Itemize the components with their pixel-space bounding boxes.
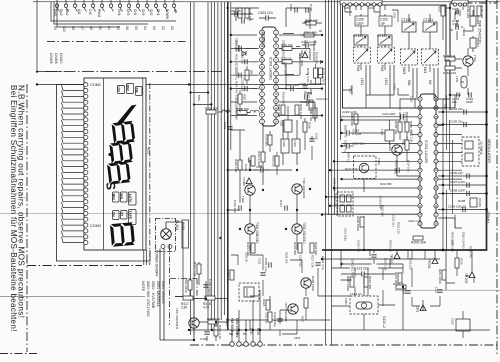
- svg-text:7L141: 7L141: [462, 28, 466, 37]
- svg-text:R302 4.7K: R302 4.7K: [322, 68, 326, 82]
- svg-text:STEREO: STEREO: [262, 32, 266, 48]
- capacitor C409: [200, 332, 210, 341]
- svg-text:R413 3.3K: R413 3.3K: [193, 262, 197, 276]
- svg-text:CH: CH: [112, 212, 116, 217]
- wire stub y209: [438, 209, 486, 211]
- node tuner block outline: [343, 5, 447, 108]
- wire glass inner right edge: [142, 78, 144, 250]
- capacitor C309: [235, 38, 242, 52]
- transformer T305 box: [280, 120, 293, 132]
- capacitor C206: [450, 171, 469, 179]
- svg-text:C301 22n: C301 22n: [230, 9, 242, 13]
- switch S6: [91, 0, 95, 12]
- resistor R413: [193, 262, 201, 276]
- switch CH2: [145, 0, 149, 12]
- svg-text:CH6: CH6: [117, 9, 121, 16]
- svg-text:S9: S9: [53, 26, 57, 30]
- wire bus a8: [224, 2, 226, 315]
- resistor R306: [245, 8, 252, 21]
- node lamp terminals: [161, 245, 165, 249]
- svg-text:3.3K: 3.3K: [181, 306, 188, 310]
- switch S1: [172, 0, 176, 12]
- resistor R158: [477, 5, 484, 18]
- svg-text:S6: S6: [125, 26, 129, 30]
- wire matrix bracket 3: [57, 2, 120, 27]
- node decimal point: [108, 153, 111, 156]
- transistor T302: [241, 185, 255, 203]
- switch S3: [118, 0, 122, 12]
- wire long y250 links: [322, 250, 440, 268]
- resistor R311b: [281, 43, 293, 50]
- svg-text:NOTE: NOTE: [141, 281, 145, 292]
- wire bus cross links: [191, 93, 212, 105]
- resistor R206: [394, 121, 402, 134]
- node bottom border corner: [0, 353, 38, 355]
- resistor R207: [405, 121, 413, 135]
- wire fold line mid: [0, 212, 500, 214]
- node power section dash border: [170, 245, 198, 325]
- node top ic U201: [340, 0, 382, 6]
- svg-text:CN410: CN410: [59, 53, 63, 64]
- wire ic301 left pins to bus: [231, 35, 257, 115]
- wire audio out left: [146, 85, 322, 131]
- node top-left dash border: [47, 41, 186, 43]
- capacitor tuning gang LW: [422, 49, 439, 65]
- node lower mid wires: [231, 245, 330, 336]
- node mid-left dash border: [45, 71, 222, 73]
- svg-text:CH3: CH3: [141, 9, 145, 16]
- wire heavy B+ rail: [322, 0, 487, 250]
- node note text: [141, 281, 165, 317]
- capacitor C324: [260, 273, 265, 275]
- svg-text:S5: S5: [134, 26, 138, 30]
- svg-text:C222 4.7µ: C222 4.7µ: [408, 219, 421, 223]
- op-amp IC201 body: [420, 94, 436, 228]
- node modulator dash box: [462, 137, 479, 166]
- capacitor C303: [259, 15, 276, 20]
- resistor R421: [214, 325, 222, 339]
- svg-text:TAPE: TAPE: [128, 211, 132, 219]
- node CN406 CN408 CN410: [49, 53, 63, 64]
- capacitor C302b: [242, 17, 254, 24]
- node tuner internal wires: [343, 5, 431, 95]
- node IC201 pins left: [418, 97, 422, 226]
- svg-text:S4: S4: [143, 26, 147, 30]
- node unit flag boxes MHz kHz AUTO: [113, 192, 137, 225]
- svg-text:POWER ON/OFF: POWER ON/OFF: [155, 250, 159, 277]
- filter CF203: [470, 38, 480, 48]
- node unit flag texts: [112, 194, 132, 220]
- svg-text:0001~500 :2SC1740S: 0001~500 :2SC1740S: [146, 281, 150, 317]
- wire bottom-left risers: [175, 262, 228, 341]
- svg-text:T202: T202: [388, 144, 392, 151]
- resistor R202b: [402, 139, 410, 150]
- resistor R319b: [265, 134, 273, 146]
- node IC201 pins right: [434, 97, 438, 226]
- wire bottom risers: [232, 290, 260, 342]
- svg-text:TP201: TP201: [427, 259, 431, 269]
- svg-text:120P: 120P: [356, 22, 363, 26]
- resistor R324: [262, 299, 270, 310]
- svg-text:0501~ :KV1780B: 0501~ :KV1780B: [151, 281, 155, 309]
- wire matrix bracket 1: [51, 2, 176, 21]
- wire sif links: [342, 112, 421, 250]
- svg-text:L151: L151: [360, 78, 364, 85]
- node wire value labels: [235, 40, 473, 277]
- node coil labels: [360, 78, 432, 86]
- wire right of ic201: [438, 99, 462, 250]
- test point TP300: [242, 177, 252, 186]
- capacitor C319: [315, 256, 325, 270]
- node right border: [496, 0, 498, 356]
- svg-text:N.B.When carrying out repairs,: N.B.When carrying out repairs, observe M…: [16, 85, 25, 318]
- capacitor C213: [341, 271, 395, 276]
- node connector labels: [228, 328, 260, 336]
- node volt note: [225, 318, 239, 338]
- svg-text:S7: S7: [80, 26, 84, 30]
- capacitor C318: [273, 312, 283, 327]
- svg-text:R356 150K: R356 150K: [311, 276, 315, 291]
- svg-text:114.6 Hz: 114.6 Hz: [350, 292, 362, 296]
- resistor R316: [295, 104, 303, 119]
- wire mid vertical links: [283, 48, 315, 165]
- svg-text:S1: S1: [170, 26, 174, 30]
- wire cn feed: [37, 0, 62, 72]
- resistor R320: [272, 155, 280, 167]
- capacitor C312: [235, 64, 242, 78]
- capacitor C311: [241, 52, 248, 64]
- wire matrix bracket 2: [54, 2, 148, 24]
- capacitor C212: [435, 287, 443, 294]
- wire ct154 links: [361, 5, 430, 49]
- transistor T301: [292, 178, 306, 199]
- svg-text:TP300: TP300: [242, 177, 246, 186]
- svg-text:E: E: [242, 333, 246, 335]
- switch S7: [82, 0, 86, 12]
- svg-text:CH1: CH1: [156, 9, 160, 16]
- node lower mid labels: [245, 252, 305, 340]
- svg-text:CN408: CN408: [54, 53, 58, 64]
- capacitor C301: [230, 9, 242, 17]
- resistor R315: [277, 104, 285, 117]
- switch S2: [163, 0, 167, 12]
- wire bus a7: [220, 2, 222, 320]
- transistor T202: [388, 144, 402, 155]
- resistor R307: [234, 8, 242, 21]
- svg-text:R216 30K: R216 30K: [368, 276, 372, 289]
- svg-text:CF226: CF226: [478, 198, 482, 207]
- resistor R213b: [455, 258, 464, 268]
- resistor R217: [393, 282, 406, 289]
- resistor R309: [305, 99, 313, 110]
- wire fold line lower-left: [0, 296, 145, 298]
- wire stub y185: [438, 184, 486, 186]
- node connector pads: [230, 342, 263, 347]
- capacitor C314b: [286, 83, 300, 91]
- svg-text:E: E: [228, 333, 232, 335]
- wire mid auxiliary: [231, 14, 326, 175]
- capacitor C313: [244, 157, 251, 171]
- transistor T151: [463, 55, 477, 66]
- svg-text:AUTO: AUTO: [128, 194, 132, 203]
- junction bus dots: [189, 91, 212, 105]
- svg-text:0561 :1S4423: 0561 :1S4423: [161, 281, 165, 303]
- wire tuner right rail: [449, 3, 451, 110]
- resistor R323: [310, 242, 318, 255]
- svg-text:R309 1.5K: R309 1.5K: [309, 107, 313, 121]
- resistor R313b: [281, 56, 292, 63]
- resistor R304: [305, 19, 318, 26]
- resistor R419: [184, 279, 192, 293]
- resistor R301: [304, 31, 317, 38]
- resistor R214: [394, 272, 402, 284]
- node band flag boxes FM MW LW: [118, 84, 143, 96]
- svg-text:C206 22n: C206 22n: [450, 171, 463, 175]
- svg-text:R217: R217: [393, 282, 401, 286]
- svg-text:F201: F201: [344, 298, 348, 305]
- switch S5: [100, 0, 104, 12]
- resistor R313: [251, 156, 255, 166]
- resistor R160: [443, 54, 456, 61]
- switch S9: [55, 0, 59, 12]
- capacitor C317: [279, 200, 287, 211]
- svg-text:R421 2.7K: R421 2.7K: [218, 325, 222, 339]
- svg-text:C320 4.7µ: C320 4.7µ: [264, 258, 268, 272]
- node discriminator dash box: [354, 156, 382, 179]
- wire bus a10: [230, 2, 232, 150]
- svg-text:CT154: CT154: [353, 34, 363, 38]
- node switch labels: [53, 26, 174, 32]
- svg-text:C317: C317: [279, 200, 283, 208]
- test point TP201: [427, 258, 438, 269]
- svg-text:R211 100K: R211 100K: [438, 269, 442, 284]
- resistor R328: [268, 312, 272, 322]
- wire ic201 top pins: [400, 99, 418, 135]
- node top ic U202: [452, 0, 468, 6]
- capacitor C158: [452, 7, 459, 15]
- svg-text:S11C-2: S11C-2: [382, 316, 386, 328]
- svg-text:+B: +B: [235, 331, 239, 335]
- capacitor C306: [289, 4, 297, 13]
- svg-text:LW: LW: [117, 87, 121, 93]
- svg-text:A11: A11: [77, 9, 81, 15]
- svg-text:R206 10K: R206 10K: [394, 121, 398, 134]
- resistor R311: [257, 151, 265, 165]
- capacitor CT151 trimmer: [423, 18, 437, 32]
- node display bottom dash border: [27, 265, 142, 267]
- svg-text:CH5: CH5: [126, 9, 130, 16]
- svg-text:F302: F302: [293, 141, 297, 148]
- svg-text:T302: T302: [241, 196, 245, 203]
- node left border: [26, 84, 28, 352]
- svg-text:S: S: [104, 181, 119, 191]
- wire glass divider: [103, 78, 105, 250]
- transistor T303: [292, 222, 306, 244]
- resistor R216: [364, 276, 372, 289]
- resistor R310: [234, 159, 242, 172]
- svg-text:IC301 LA3361: IC301 LA3361: [269, 57, 273, 80]
- wire ic201 stubs2: [341, 95, 456, 228]
- svg-text:S5: S5: [98, 26, 102, 30]
- wire ic201 left pins to busB: [322, 144, 418, 215]
- svg-text:C323: C323: [294, 336, 301, 340]
- svg-text:10.7MHz: 10.7MHz: [479, 141, 483, 155]
- node ic201 upper stub labels: [394, 96, 448, 175]
- svg-text:C152: C152: [368, 6, 375, 10]
- svg-text:C408 10µ16: C408 10µ16: [208, 279, 212, 296]
- svg-text:CT254 68P: CT254 68P: [333, 193, 337, 207]
- svg-text:MODULATOR: MODULATOR: [487, 139, 491, 163]
- svg-text:R322 56K: R322 56K: [293, 242, 297, 255]
- resistor R159: [466, 5, 474, 18]
- svg-text:PL301: PL301: [175, 220, 179, 230]
- wire stub y176: [438, 175, 486, 177]
- capacitor C207: [450, 180, 469, 188]
- node digit 8 third: [107, 161, 131, 184]
- svg-text:COM1: COM1: [90, 83, 101, 87]
- transistor T306: [284, 302, 298, 322]
- node lamp connector PL301: [181, 220, 188, 248]
- svg-text:220P: 220P: [466, 100, 473, 104]
- capacitor C162: [466, 92, 474, 104]
- svg-text:T304 2SB1010: T304 2SB1010: [255, 222, 259, 243]
- wire left risers under ic301: [240, 124, 263, 203]
- svg-text:R158 330: R158 330: [480, 5, 484, 18]
- wire bus b2: [328, 0, 330, 215]
- capacitor C150 label box: [355, 16, 368, 26]
- resistor R308 with coil: [205, 107, 230, 115]
- wire bus b6: [340, 0, 342, 140]
- capacitor C209: [448, 205, 466, 213]
- svg-text:C409: C409: [200, 337, 208, 341]
- wire bus b4: [334, 0, 336, 215]
- capacitor C218: [347, 129, 362, 137]
- resistor R417: [181, 296, 193, 310]
- resistor R329: [304, 298, 308, 308]
- wire bus b5: [337, 0, 339, 215]
- wire ic201 right short stubs: [438, 99, 462, 218]
- svg-text:455kHz: 455kHz: [486, 211, 490, 223]
- resistor R211: [438, 269, 446, 284]
- capacitor C153 label box: [379, 16, 392, 26]
- capacitor C228 box: [451, 311, 471, 338]
- filter F300: [281, 139, 289, 153]
- resistor R215: [346, 276, 354, 291]
- wire tp drops: [397, 250, 472, 290]
- filter CF226: [458, 198, 482, 207]
- node display glass: [84, 78, 146, 250]
- capacitor C315b: [309, 133, 318, 141]
- wire det horizontals: [332, 250, 475, 306]
- svg-text:R220 100K: R220 100K: [356, 216, 360, 231]
- capacitor CT150 trimmer: [401, 18, 416, 32]
- switch CH3: [136, 0, 140, 12]
- wire bus b1: [325, 0, 327, 345]
- svg-text:4L01: 4L01: [147, 147, 151, 155]
- wire fold line lower-right: [395, 289, 500, 291]
- node IC201 pin numbers: [419, 97, 438, 226]
- resistor R157: [438, 6, 446, 16]
- svg-text:CT150: CT150: [401, 18, 411, 22]
- wire ic301 right pins out: [279, 35, 322, 115]
- svg-text:C408 10µ: C408 10µ: [226, 269, 230, 282]
- capacitor C320: [264, 258, 271, 272]
- svg-text:5P: 5P: [381, 22, 385, 26]
- resistor R309b: [309, 107, 317, 121]
- lamp PL301: [161, 229, 172, 240]
- switch S4: [109, 0, 113, 12]
- switch S8: [73, 0, 77, 12]
- wire right pair vertical: [443, 6, 460, 214]
- resistor R420: [207, 317, 220, 324]
- capacitor C307: [300, 94, 314, 104]
- svg-text:T303 2SD1010: T303 2SD1010: [302, 222, 306, 244]
- svg-text:LW1: LW1: [423, 67, 427, 74]
- node digit 8 second: [109, 141, 133, 164]
- svg-text:R208: R208: [458, 199, 466, 203]
- svg-text:R303 4.7K: R303 4.7K: [306, 68, 310, 82]
- svg-text:IC201 LA1265: IC201 LA1265: [424, 140, 428, 163]
- wire lamp area: [160, 250, 194, 340]
- resistor R308b with coil: [236, 107, 259, 115]
- switch S10: [64, 0, 68, 12]
- capacitor C304: [301, 40, 317, 48]
- svg-text:R316 1µ50: R316 1µ50: [299, 104, 303, 119]
- svg-text:S6: S6: [89, 26, 93, 30]
- capacitor CT152 trimmer: [377, 34, 392, 45]
- switch CH1: [154, 0, 158, 12]
- resistor R307b: [238, 94, 247, 104]
- svg-text:DOWN: DOWN: [165, 9, 169, 20]
- transistor T304: [245, 222, 259, 243]
- svg-text:C209 100µ25: C209 100µ25: [448, 205, 466, 209]
- resistor R220: [356, 216, 364, 231]
- capacitor C305: [299, 82, 312, 88]
- wire bottom long: [189, 320, 490, 330]
- node gang labels: [356, 65, 427, 75]
- svg-text:L152: L152: [384, 78, 388, 85]
- capacitor C203b: [397, 168, 399, 173]
- node display outer board: [57, 85, 151, 262]
- svg-text:C316: C316: [256, 165, 263, 169]
- resistor R303: [306, 68, 318, 82]
- node IC301 pin numbers: [261, 31, 278, 124]
- svg-text:R209 30K: R209 30K: [411, 241, 427, 245]
- node tuner top labels: [344, 6, 397, 94]
- svg-text:DisN: DisN: [53, 9, 57, 17]
- resistor R418: [203, 296, 215, 310]
- inductor L151 lines: [366, 65, 438, 98]
- filter CF202: [470, 15, 480, 26]
- wire stub y124: [438, 124, 486, 126]
- capacitor C302: [306, 4, 313, 13]
- svg-text:C303 22n: C303 22n: [258, 11, 273, 15]
- svg-text:F300: F300: [282, 141, 286, 148]
- node digit 1: [117, 105, 137, 125]
- wire com1 feed: [37, 84, 84, 86]
- capacitor tuning gang FM1: [354, 47, 371, 63]
- svg-text:C313: C313: [244, 164, 248, 172]
- resistor R302: [319, 68, 326, 82]
- svg-text:C213 22n: C213 22n: [354, 267, 369, 271]
- svg-text:PMo2: PMo2: [97, 9, 101, 18]
- capacitor C316: [233, 200, 241, 213]
- svg-text:CT151: CT151: [423, 18, 433, 22]
- svg-text:MW: MW: [407, 80, 411, 86]
- svg-text:C314 220P: C314 220P: [286, 83, 300, 87]
- resistor R322: [293, 242, 302, 255]
- svg-text:C212 220P: C212 220P: [382, 112, 396, 116]
